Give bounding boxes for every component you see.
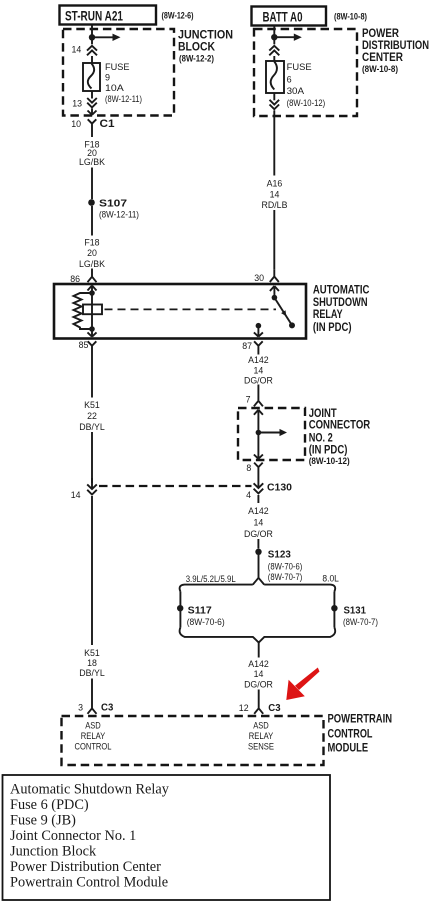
svg-text:DG/OR: DG/OR [244,529,273,539]
svg-text:10A: 10A [105,83,124,93]
power distribution center dashed box [254,29,357,116]
svg-text:(8W-12-11): (8W-12-11) [99,209,139,219]
svg-text:(8W-70-7): (8W-70-7) [268,572,303,582]
svg-text:CONNECTOR: CONNECTOR [309,420,371,432]
BATT A0 feed box [252,7,327,26]
svg-text:F18: F18 [84,238,99,248]
svg-text:22: 22 [87,411,97,421]
wire from ST-RUN A21 to node [91,25,93,35]
wire fuse 6 to relay pin 30 [273,110,275,269]
svg-text:8: 8 [246,463,251,473]
svg-text:14: 14 [254,366,264,376]
wire from BATT A0 to node [273,25,275,35]
svg-text:A142: A142 [248,506,269,516]
svg-text:(IN PDC): (IN PDC) [313,322,352,334]
svg-text:Powertrain Control Module: Powertrain Control Module [10,875,168,891]
branch arrow right from node [274,36,294,38]
svg-text:20: 20 [87,248,97,258]
svg-text:12: 12 [239,703,249,713]
svg-text:ASD: ASD [253,720,269,730]
wire merge to C3 pin 12 [258,643,260,702]
svg-text:(8W-10-8): (8W-10-8) [362,64,398,74]
connector chevrons above fuse 6 [273,40,275,44]
svg-text:(8W-10-12): (8W-10-12) [287,98,326,108]
svg-text:DISTRIBUTION: DISTRIBUTION [362,40,429,52]
joint connector no 2 dashed box [238,408,305,460]
svg-text:NO. 2: NO. 2 [309,432,333,444]
branch arrow right from node [92,36,113,38]
wire C1 to S107 [91,132,93,199]
svg-text:DG/OR: DG/OR [244,680,273,690]
svg-text:13: 13 [72,98,82,108]
svg-text:S107: S107 [99,197,127,209]
node splice under BATT [271,34,277,40]
svg-text:C3: C3 [268,702,280,714]
splice S107 [88,199,95,206]
dashed tie line C130 [99,485,252,487]
svg-text:85: 85 [79,340,89,350]
svg-text:FUSE: FUSE [105,62,130,72]
splice S123 [255,549,261,555]
svg-text:JUNCTION: JUNCTION [178,30,233,42]
svg-text:A142: A142 [248,659,269,669]
resistor parallel with coil [74,293,93,329]
merge bracket bottom [180,628,336,643]
svg-text:RELAY: RELAY [313,309,343,321]
svg-text:JOINT: JOINT [309,408,337,420]
svg-text:14: 14 [254,518,264,528]
svg-text:18: 18 [87,658,97,668]
svg-text:BLOCK: BLOCK [178,42,216,54]
svg-text:FUSE: FUSE [287,62,312,72]
svg-text:86: 86 [70,274,80,284]
svg-text:14: 14 [72,44,82,54]
svg-text:30: 30 [254,273,264,283]
svg-text:S117: S117 [188,604,212,616]
svg-text:S123: S123 [268,549,291,561]
svg-text:30A: 30A [287,86,305,96]
svg-text:CONTROL: CONTROL [328,728,373,740]
svg-text:6: 6 [287,74,292,84]
svg-text:(8W-10-8): (8W-10-8) [334,12,367,22]
svg-text:(8W-12-2): (8W-12-2) [179,54,214,64]
junction block dashed box [63,29,174,116]
svg-text:(8W-12-11): (8W-12-11) [105,94,142,104]
svg-text:SHUTDOWN: SHUTDOWN [313,297,368,309]
svg-text:DB/YL: DB/YL [79,668,105,678]
splice S117 [177,605,183,611]
svg-text:RELAY: RELAY [81,731,106,741]
svg-text:Joint Connector No. 1: Joint Connector No. 1 [10,828,136,844]
wire to S117 [179,592,181,628]
svg-text:CONTROL: CONTROL [75,741,112,751]
svg-text:Fuse 6 (PDC): Fuse 6 (PDC) [10,797,89,813]
svg-text:Fuse 9 (JB): Fuse 9 (JB) [10,813,76,829]
wire S123 to split [258,555,260,578]
relay coil wire [91,293,93,329]
svg-text:S131: S131 [344,604,367,616]
svg-text:LG/BK: LG/BK [79,259,105,269]
svg-text:LG/BK: LG/BK [79,157,105,167]
svg-text:14: 14 [270,190,280,200]
fuse F6 body [266,61,284,93]
svg-text:DB/YL: DB/YL [79,422,105,432]
svg-text:(8W-70-7): (8W-70-7) [343,617,378,627]
svg-text:MODULE: MODULE [328,743,369,755]
svg-text:8.0L: 8.0L [322,573,339,583]
wire C130 to S123 [257,495,259,549]
svg-text:POWERTRAIN: POWERTRAIN [328,713,393,725]
svg-text:Junction Block: Junction Block [10,844,97,860]
wire to S131 [333,592,335,628]
pin 85 exit arrow [88,329,97,337]
svg-text:A16: A16 [267,179,283,189]
pin 87 exit arrow [254,326,263,337]
svg-text:RD/LB: RD/LB [262,200,288,210]
svg-text:C1: C1 [100,118,115,130]
svg-text:SENSE: SENSE [248,741,274,751]
svg-text:3.9L/5.2L/5.9L: 3.9L/5.2L/5.9L [186,574,236,584]
svg-text:C3: C3 [101,702,113,714]
svg-text:C130: C130 [267,481,292,493]
svg-text:K51: K51 [84,648,100,658]
svg-text:CENTER: CENTER [362,52,404,64]
svg-text:DG/OR: DG/OR [244,375,273,385]
svg-text:A142: A142 [248,355,269,365]
svg-text:ST-RUN A21: ST-RUN A21 [65,8,123,24]
pin 8 exit arrow [254,433,263,459]
node coil bottom [89,326,95,332]
svg-text:9: 9 [105,73,110,83]
splice S131 [331,605,337,611]
red callout arrow [295,668,320,691]
wire relay 87 to joint connector pin 7 [257,354,259,396]
svg-text:(8W-70-6): (8W-70-6) [268,561,303,571]
svg-text:14: 14 [254,669,264,679]
switch blade [274,298,292,326]
svg-text:POWER: POWER [362,28,400,40]
svg-text:AUTOMATIC: AUTOMATIC [313,285,370,297]
connector C130 pin 4 chevrons on right wire [254,475,264,494]
legend box [3,775,331,900]
wire S107 to relay pin 86 [91,206,93,270]
node joint connector bus [256,430,262,436]
pin 7 terminal inside joint connector [254,410,263,433]
svg-text:(IN PDC): (IN PDC) [309,445,348,457]
connector C130 pin 14 chevrons on left wire [84,483,100,496]
svg-text:(8W-70-6): (8W-70-6) [187,617,225,627]
wire relay 85 to C3 pin 3 [91,354,93,702]
node coil top [89,290,95,296]
node pin 87 terminal [256,323,262,329]
svg-text:Automatic Shutdown Relay: Automatic Shutdown Relay [10,782,170,798]
relay K1 automatic shutdown relay box [54,284,306,339]
svg-text:(8W-12-6): (8W-12-6) [162,11,194,21]
ST-RUN A21 feed box [60,6,157,25]
relay coil box [83,305,102,315]
node splice under ST-RUN [89,34,95,40]
connector chevrons below fuse 6 [273,93,275,100]
connector C1 pin 10 crossing [91,109,93,115]
connector chevrons below fuse 9 [91,91,93,99]
svg-text:ASD: ASD [85,720,101,730]
svg-text:Power Distribution Center: Power Distribution Center [10,859,161,875]
connector chevrons above fuse 9 [91,40,93,44]
node switch throw [289,322,295,328]
svg-text:87: 87 [242,341,252,351]
svg-text:4: 4 [246,490,251,500]
fuse F9 body [83,63,100,91]
svg-text:(8W-10-12): (8W-10-12) [309,456,350,466]
powertrain control module dashed box [62,716,324,765]
svg-text:10: 10 [71,119,81,129]
svg-text:3: 3 [78,703,83,713]
pin 86 terminal inside relay [88,286,97,294]
svg-text:14: 14 [71,490,81,500]
svg-text:BATT A0: BATT A0 [263,9,303,25]
dashed actuation line from coil to switch [105,308,277,310]
svg-text:7: 7 [246,394,251,404]
node switch common [272,295,278,301]
svg-text:RELAY: RELAY [249,731,274,741]
pin 30 terminal inside relay [270,286,279,295]
split bracket top [180,578,336,592]
svg-text:K51: K51 [84,400,100,410]
branch arrow right inside joint connector [258,432,279,434]
